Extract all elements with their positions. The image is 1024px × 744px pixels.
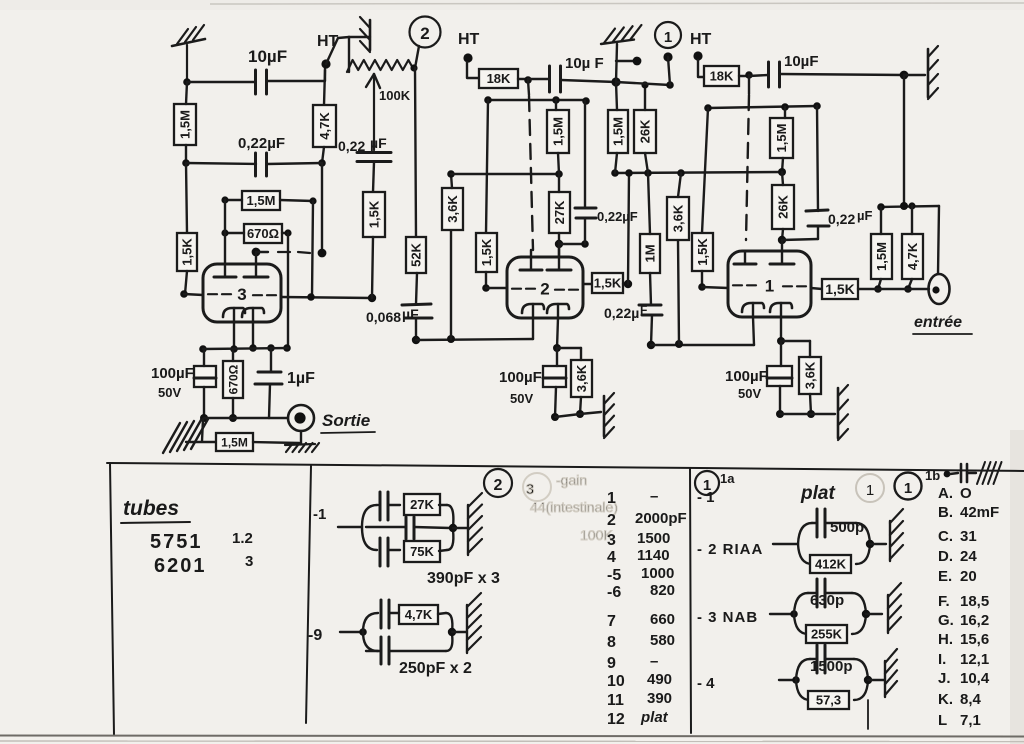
svg-text:-1: -1: [313, 506, 326, 523]
svg-text:entrée: entrée: [914, 314, 962, 331]
resistor 1,5K (stage1 grid): [692, 233, 713, 271]
resistor 27K: [404, 494, 440, 515]
label 1uF: [287, 370, 315, 387]
resistor 3,6K (stage1 screen): [667, 197, 689, 240]
resistor 3,6K (stage2 cathode): [571, 360, 592, 397]
circled 1 table: [695, 471, 719, 495]
label 100uF 50V (stage2): [499, 369, 542, 406]
svg-text:4,7K: 4,7K: [317, 112, 332, 140]
svg-text:tubes: tubes: [123, 497, 179, 520]
svg-text:1: 1: [664, 29, 672, 46]
wire C10uF1 to right ground: [780, 71, 925, 80]
dashed link plate to node B3 column: [256, 252, 310, 253]
svg-text:A.: A.: [938, 485, 953, 502]
svg-text:0,22µF: 0,22µF: [597, 209, 638, 224]
svg-text:3: 3: [245, 553, 253, 570]
ghost circled 1: [856, 474, 884, 502]
network RIAA brackets: [798, 523, 870, 564]
frequency response list A-L: [938, 485, 999, 729]
svg-text:1,5M: 1,5M: [221, 435, 248, 449]
wire 1uF leads: [269, 348, 271, 418]
svg-text:0,068: 0,068: [366, 309, 401, 325]
network RIAA output: [866, 540, 886, 548]
svg-text:26K: 26K: [638, 119, 653, 143]
wire 1,5M sortie to jack: [253, 442, 299, 443]
ground network2: [467, 593, 481, 653]
wire HT2 to R18K: [467, 62, 479, 78]
wire C0,22s2 top to rail: [584, 101, 586, 208]
wire pot right down to 52K: [415, 68, 416, 237]
resistor 3,6K (stage1 cathode): [799, 357, 821, 394]
wire 3,6K2b leads: [576, 348, 584, 418]
ground NAB: [888, 583, 901, 633]
svg-text:1500p: 1500p: [810, 658, 853, 675]
svg-text:0,22: 0,22: [828, 211, 855, 227]
wire rail down to 1,5K1: [702, 108, 708, 233]
label -1 right: [697, 489, 715, 506]
svg-text:3,6K: 3,6K: [671, 204, 686, 232]
svg-text:255K: 255K: [811, 627, 843, 642]
capacitor 1500p: [817, 645, 825, 673]
resistor 1M: [640, 234, 660, 273]
svg-text:1,5K: 1,5K: [180, 238, 195, 266]
resistor 670ohm (stage3 cathode): [223, 361, 243, 398]
wire 670 node down: [287, 233, 289, 348]
label tubes heading: [121, 497, 190, 523]
wire 3,6K1 top to y173: [678, 173, 681, 197]
wire A3 to R1,5M top: [186, 82, 187, 104]
svg-text:µF: µF: [857, 208, 872, 223]
svg-text:44(intestinale): 44(intestinale): [530, 499, 618, 515]
resistor 255K: [806, 625, 847, 643]
wire node E to tube2 cathode: [416, 335, 533, 343]
svg-text:D.: D.: [938, 548, 953, 565]
ground 1b: [977, 462, 1002, 484]
capacitor 630p: [817, 579, 825, 607]
capacitor 0,068uF: [402, 304, 432, 318]
svg-text:50V: 50V: [738, 386, 761, 401]
svg-text:412K: 412K: [815, 557, 847, 572]
wire 1,5K1out to entree: [858, 288, 929, 290]
svg-text:4: 4: [607, 549, 616, 566]
wire node F2 to C10uF2: [528, 78, 549, 80]
resistor 26K (stage1 plate2): [772, 185, 794, 229]
svg-text:1a: 1a: [720, 471, 735, 486]
wire 100uF1 leads: [776, 341, 784, 418]
wire stage1 bottom to ground: [780, 413, 835, 415]
wire rail grid down into tube3: [224, 200, 226, 264]
triode tube 3: [203, 252, 281, 322]
svg-text:75K: 75K: [410, 544, 434, 559]
wire to ground stage3: [202, 419, 203, 441]
capacitor 250pF top: [381, 600, 389, 628]
svg-text:670Ω: 670Ω: [226, 364, 240, 394]
label - 3 NAB: [697, 609, 758, 626]
label 5751: [150, 530, 253, 553]
svg-text:-gain: -gain: [556, 472, 587, 488]
label 100uF 50V (stage3): [151, 365, 194, 400]
wire cap to 4,7K: [389, 613, 446, 614]
svg-text:4,7K: 4,7K: [405, 607, 433, 622]
svg-text:2: 2: [540, 280, 549, 299]
wire node C3 to C32: [186, 163, 256, 164]
circled 2 stage marker: [410, 17, 441, 48]
wire y173 bus: [611, 169, 782, 177]
resistor 1,5M (stage1 left): [608, 110, 628, 153]
ground stage3 bottom: [163, 419, 208, 453]
capacitor 390pF mid: [406, 517, 414, 539]
resistor 27K (stage2): [549, 192, 570, 233]
wire plate node to C0,22 stage1: [782, 239, 818, 240]
triode tube 2: [507, 242, 583, 318]
wire C10uF2 to ground node: [561, 77, 621, 86]
svg-text:2: 2: [420, 24, 429, 43]
svg-text:1: 1: [904, 480, 912, 497]
svg-text:-9: -9: [308, 627, 322, 644]
svg-text:11: 11: [607, 692, 624, 709]
wire pos4 lead: [779, 676, 800, 684]
svg-text:26K: 26K: [776, 194, 791, 218]
label HT stage2: [458, 31, 480, 48]
resistor 57,3: [808, 691, 849, 709]
svg-text:H.: H.: [938, 631, 953, 648]
capacitor 0,22uF (below 1M): [639, 305, 662, 315]
resistor 670ohm (tube3): [244, 224, 282, 243]
svg-text:-5: -5: [607, 567, 621, 584]
svg-text:670Ω: 670Ω: [247, 226, 279, 241]
svg-text:0,22µF: 0,22µF: [238, 135, 285, 152]
label -9: [308, 627, 322, 644]
label plat: [800, 483, 835, 504]
wire rail down to 1,5K2: [486, 100, 488, 233]
svg-text:B.: B.: [938, 504, 953, 521]
svg-text:1: 1: [866, 482, 874, 499]
svg-text:F.: F.: [938, 593, 950, 610]
svg-text:E.: E.: [938, 568, 952, 585]
wire 1,5M left to rail: [221, 196, 242, 203]
resistor 26K (stage1 left): [634, 110, 656, 153]
wire node F1 to C10uF1: [749, 75, 768, 76]
svg-text:G.: G.: [938, 612, 954, 629]
wire R1,5K to tube3 grid node: [185, 271, 187, 294]
wire 3,6K top to wire-y174: [447, 170, 455, 188]
dashed shield wire stage2: [529, 96, 533, 250]
svg-text:6201: 6201: [154, 555, 207, 577]
HT terminal dot stage1b: [663, 52, 672, 85]
wire 1M bottom to C0,22: [650, 273, 651, 305]
table left border: [110, 463, 114, 735]
entree jack: [929, 274, 950, 304]
wire 4,7K1 leads: [904, 206, 912, 293]
capacitor 10uF (stage1): [769, 62, 780, 87]
label 0,22uF (stage3): [238, 135, 285, 152]
label entree: [913, 314, 972, 334]
svg-text:390: 390: [647, 690, 672, 707]
capacitor 100uF (stage1): [767, 366, 792, 386]
svg-text:L: L: [938, 712, 947, 729]
svg-text:Sortie: Sortie: [322, 411, 370, 430]
wire circled2 down to pot right: [410, 46, 419, 72]
wire jack ground stem: [300, 431, 302, 444]
label 1b and cap to ground: [925, 464, 976, 483]
triode tube 1: [728, 240, 811, 317]
label 500p: [830, 519, 864, 536]
wire 52K to C0,068: [416, 273, 417, 304]
potentiometer 100K zigzag: [347, 60, 414, 72]
wire cathode bus3: [203, 348, 288, 349]
wire -1 lead: [338, 526, 362, 528]
svg-text:27K: 27K: [552, 200, 567, 224]
label 100K: [379, 88, 411, 103]
circled 1b marker: [895, 473, 922, 500]
node A3 junction: [183, 78, 191, 86]
svg-text:F: F: [640, 303, 647, 317]
resistor 1,5M (stage1 plate1): [770, 118, 793, 158]
network pos4 brackets: [796, 659, 868, 700]
wire 26K1b leads: [778, 172, 786, 244]
svg-text:3,6K: 3,6K: [574, 364, 589, 392]
svg-text:µF: µF: [370, 135, 387, 151]
label 10uF (stage2): [565, 55, 604, 72]
selector value list: [607, 488, 687, 728]
wire tube3 output: [281, 293, 376, 302]
HT terminal dot stage3: [321, 59, 330, 68]
svg-text:- 4: - 4: [697, 675, 715, 692]
svg-text:0,22µ: 0,22µ: [604, 305, 639, 321]
svg-text:15,6: 15,6: [960, 631, 989, 648]
label 250pF x 2: [399, 660, 472, 677]
wire 1,5K1 to tube1 grid node: [698, 271, 728, 291]
wire R1,5M bottom to node C3: [185, 145, 187, 163]
wire tube1 cathode down: [777, 317, 785, 345]
ground network1: [468, 493, 482, 555]
svg-text:1,5M: 1,5M: [611, 117, 626, 146]
wire right column down: [903, 75, 905, 206]
label Sortie: [321, 411, 375, 433]
label 630p: [810, 592, 844, 609]
svg-text:12,1: 12,1: [960, 651, 989, 668]
wire 100uF3 leads: [200, 349, 208, 422]
wire mid branch: [366, 527, 450, 528]
circled 1 stage marker: [655, 22, 681, 48]
svg-text:1500: 1500: [637, 530, 670, 547]
wire R18K to node F2: [518, 76, 532, 84]
wire fb cap to R1,5K: [373, 162, 374, 192]
dashed shield wire stage1: [746, 95, 749, 240]
capacitor 0,22uF (stage3 coupling): [256, 153, 267, 176]
svg-text:16,2: 16,2: [960, 612, 989, 629]
resistor 1,5M (stage3 upper-left): [174, 104, 196, 145]
svg-text:50V: 50V: [510, 391, 533, 406]
svg-text:250pF x 2: 250pF x 2: [399, 660, 472, 677]
wire 1,5M2 bottom to y174: [558, 153, 559, 174]
svg-text:J.: J.: [938, 670, 951, 687]
ground stage1 bottom: [838, 385, 848, 440]
svg-text:18K: 18K: [487, 71, 511, 86]
wire 1,5M1b top: [880, 207, 882, 234]
wire 1,5M1b bottom: [874, 279, 882, 293]
resistor 1,5K (stage1 output): [822, 279, 858, 299]
wire y100 stage2 grid rail: [484, 96, 590, 105]
label - 4: [697, 675, 715, 692]
wire grid node to tube3: [184, 294, 203, 295]
svg-text:660: 660: [650, 611, 675, 628]
wire 3,6K(stage2) column: [450, 230, 452, 339]
ground pos4: [885, 649, 897, 697]
svg-text:1,5M: 1,5M: [774, 124, 789, 153]
table bottom border: [0, 736, 1024, 742]
wire stage2 cathode bottom to ground: [555, 412, 601, 417]
svg-text:O: O: [960, 485, 972, 502]
svg-text:3: 3: [526, 481, 534, 498]
resistor 4,7K (network2): [399, 605, 438, 624]
wire HT3 to pot ground: [326, 37, 349, 64]
svg-text:–: –: [650, 653, 658, 670]
svg-text:1,5K: 1,5K: [695, 238, 710, 266]
wire C32 to node B3: [267, 163, 322, 164]
svg-text:27K: 27K: [410, 497, 434, 512]
HT terminal dot stage2: [463, 53, 472, 62]
label 10uF (stage3): [248, 47, 287, 66]
svg-text:18K: 18K: [710, 69, 734, 84]
wire 1,5M right to node D3: [280, 197, 317, 204]
svg-text:1: 1: [607, 490, 616, 507]
wire 3,6K1b leads: [807, 341, 815, 418]
svg-text:4,7K: 4,7K: [905, 242, 920, 270]
label 0,22uF (stage2): [597, 209, 638, 224]
svg-text:1,5K: 1,5K: [825, 281, 855, 297]
wire C0,22s1 leads: [817, 106, 818, 239]
HT terminal dot stage1: [693, 51, 702, 60]
wire y174 stage2: [451, 170, 563, 178]
svg-text:1,5M: 1,5M: [247, 193, 276, 208]
capacitor 1uF: [255, 372, 282, 384]
resistor 52K: [406, 237, 426, 273]
wire tube1 out to 1,5K: [811, 288, 822, 289]
svg-text:3,6K: 3,6K: [445, 195, 460, 223]
wire y107 stage1 grid rail: [704, 102, 821, 112]
svg-text:10: 10: [607, 673, 625, 690]
svg-text:2: 2: [607, 512, 616, 529]
svg-text:1M: 1M: [643, 244, 658, 262]
svg-text:- 3 NAB: - 3 NAB: [697, 609, 758, 626]
label 0,22uF (feedback): [338, 135, 387, 154]
svg-text:100µF: 100µF: [151, 365, 194, 382]
svg-text:1000: 1000: [641, 565, 674, 582]
svg-text:580: 580: [650, 632, 675, 649]
svg-text:42mF: 42mF: [960, 504, 999, 521]
label 100uF 50V (stage1): [725, 368, 768, 401]
wire cap to 27K: [388, 504, 447, 506]
wire R18K1 to node F1: [739, 71, 753, 79]
svg-text:31: 31: [960, 528, 977, 545]
network1 output node: [449, 524, 467, 532]
label HT stage1: [690, 31, 712, 48]
svg-text:100µF: 100µF: [725, 368, 768, 385]
capacitor 10uF (stage3): [256, 70, 267, 94]
svg-text:490: 490: [647, 671, 672, 688]
wire ground to node: [616, 44, 617, 82]
wire 1,5K2out to node G2: [623, 280, 632, 288]
wire 3,6K1 column: [678, 240, 679, 344]
wire C31 to HT node 3: [267, 66, 325, 81]
label HT stage3: [317, 33, 339, 50]
tube3 plate node dot: [252, 248, 261, 257]
wire node G2 up to y173: [628, 173, 629, 284]
wire pot-left bracket: [348, 37, 350, 72]
svg-text:52K: 52K: [409, 242, 424, 266]
capacitor 100uF (stage2): [543, 366, 566, 387]
svg-text:1,5K: 1,5K: [367, 200, 382, 228]
wire 27K top: [558, 174, 560, 192]
label 1a: [720, 471, 735, 486]
wire node B3 down to plate link: [318, 163, 327, 257]
svg-text:7: 7: [607, 613, 616, 630]
wire cap to 75K: [388, 550, 447, 551]
svg-text:100K: 100K: [379, 88, 411, 103]
ground top-left: [172, 25, 205, 46]
resistor 412K: [810, 555, 851, 573]
wire node C3 down to R1,5K: [186, 163, 187, 233]
wire 1,5M1 bottom to node H1: [778, 158, 786, 176]
stub wire with dot: [616, 57, 641, 66]
wire fb R to tube3 output node: [372, 237, 373, 298]
svg-text:1: 1: [765, 276, 774, 295]
wire bottom bus3: [204, 417, 288, 419]
svg-text:plat: plat: [640, 709, 669, 726]
wire tube2 cathode pins down: [533, 318, 561, 352]
tube3 grid node dot: [180, 290, 188, 298]
svg-text:390pF x 3: 390pF x 3: [427, 570, 500, 587]
label 10uF (stage1): [784, 53, 819, 70]
resistor 18K (stage1): [704, 66, 739, 86]
wire cathode bus y345: [651, 317, 754, 348]
svg-text:24: 24: [960, 548, 977, 565]
ghost pencil notes: [523, 472, 618, 543]
label 390pF x 3: [427, 570, 500, 587]
capacitor 100uF (stage3): [194, 366, 216, 387]
label 1500p: [810, 658, 853, 675]
svg-text:20: 20: [960, 568, 977, 585]
svg-text:1,5K: 1,5K: [479, 238, 494, 266]
label 6201: [154, 553, 253, 577]
ground stage2 bottom: [604, 393, 614, 438]
resistor 18K (stage2): [479, 69, 518, 88]
svg-text:- 1: - 1: [697, 489, 715, 506]
svg-text:7,1: 7,1: [960, 712, 981, 729]
resistor 1,5K (feedback): [363, 192, 385, 237]
wire tube3 cathodes down: [199, 322, 291, 353]
label - 2 RIAA: [697, 541, 763, 558]
svg-text:9: 9: [607, 655, 616, 672]
wire 100uF2 leads: [551, 348, 559, 421]
wire cathode node right: [781, 340, 810, 342]
wire 1M top to y173: [648, 173, 650, 234]
pot wiper arrow: [366, 74, 380, 150]
wire 1,5M1a leads: [615, 82, 617, 173]
svg-text:500p: 500p: [830, 519, 864, 536]
svg-text:10µF: 10µF: [248, 47, 287, 66]
svg-text:- 2 RIAA: - 2 RIAA: [697, 541, 763, 558]
svg-text:1,5M: 1,5M: [874, 242, 889, 271]
capacitor 390pF top: [377, 492, 388, 520]
wire R4,7K to node B3: [322, 147, 324, 163]
ground stage2 top: [601, 25, 641, 44]
wire NAB lead: [770, 610, 798, 618]
wire HT rail stage1 top: [616, 81, 674, 89]
label 0,22uF (stage1): [828, 208, 872, 227]
wire 1,5K2 to tube2 grid node: [482, 272, 507, 292]
